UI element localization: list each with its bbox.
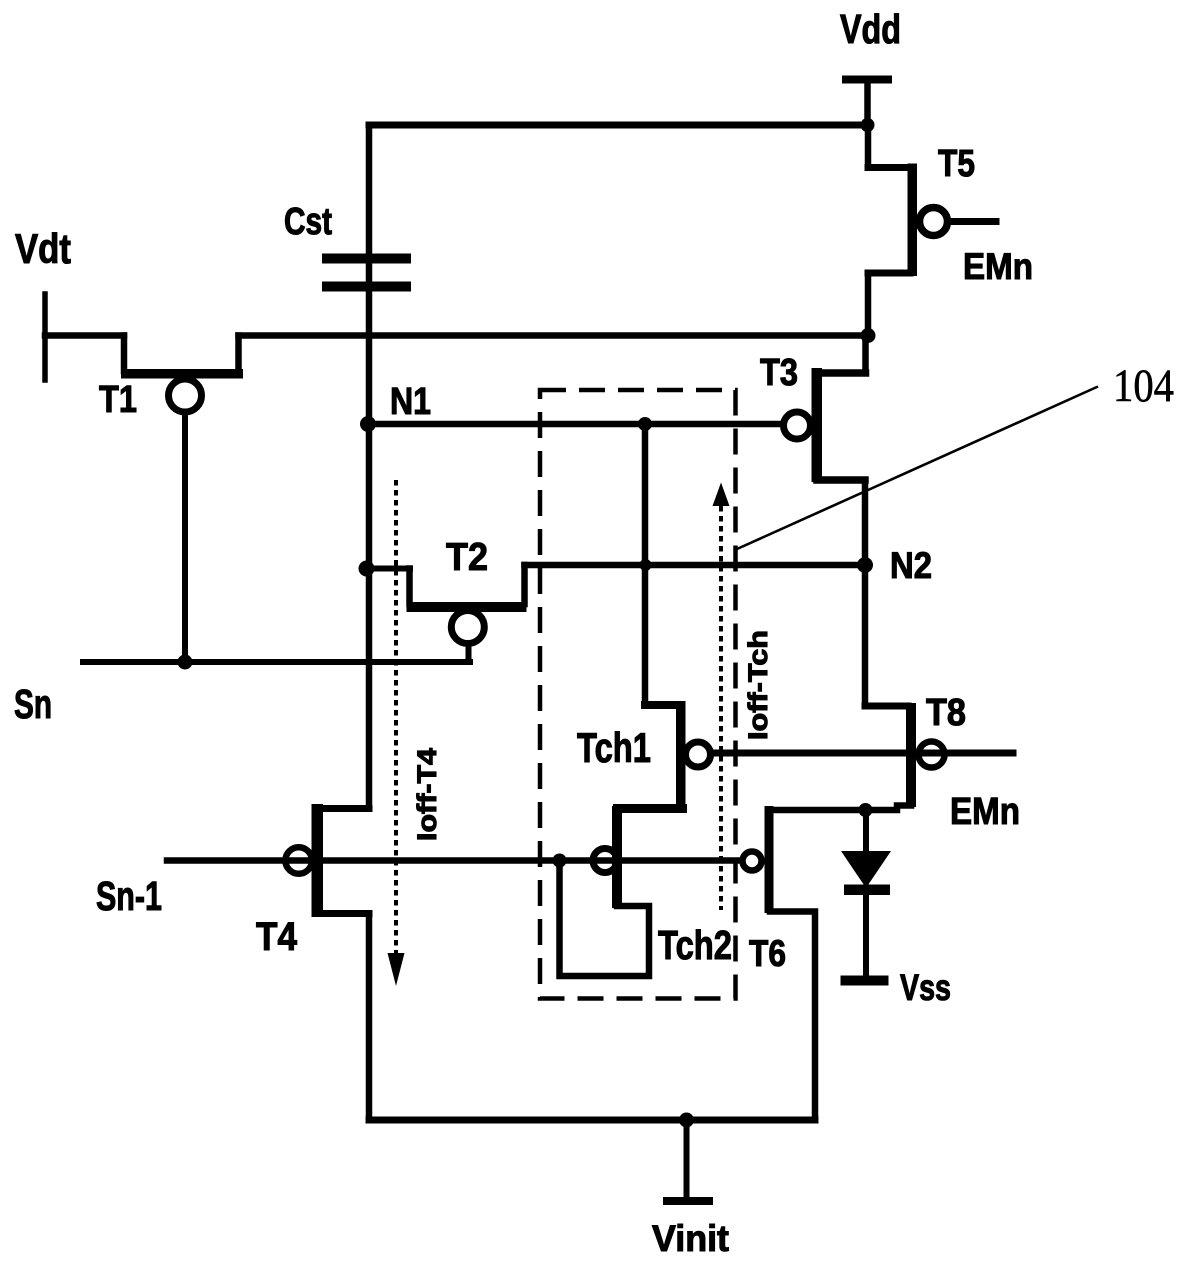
wire T5 gate bbox=[950, 218, 996, 225]
svg-text:Vss: Vss bbox=[900, 967, 951, 1008]
svg-text:Sn-1: Sn-1 bbox=[96, 873, 162, 919]
node junction dot Tch1 drain tap bbox=[638, 417, 652, 431]
wire T5 source step bbox=[868, 270, 910, 277]
node N2 junction dot bbox=[857, 557, 873, 573]
svg-text:EMn: EMn bbox=[950, 791, 1020, 833]
wire T2 drain to N2 bbox=[525, 562, 866, 569]
wire Vinit stem bbox=[684, 1120, 690, 1198]
wire N1 to T2 source bbox=[367, 566, 411, 572]
transistor T3 gate circle bbox=[784, 412, 811, 439]
svg-text:N1: N1 bbox=[390, 381, 431, 423]
wire T5 drain step bbox=[868, 164, 910, 171]
wire Vdd stem bbox=[864, 80, 871, 125]
wire bottom rail to Vinit bbox=[369, 1117, 815, 1124]
wire Sn-1 row bbox=[167, 857, 738, 864]
svg-text:N2: N2 bbox=[890, 545, 932, 586]
wire N1 row to T3 gate bbox=[367, 421, 782, 428]
power terminal Vss bar bbox=[841, 976, 889, 986]
wire diode anode stem bbox=[863, 810, 869, 852]
wire T1 left step bbox=[121, 336, 128, 372]
wire Sn row bbox=[83, 659, 470, 665]
arrow Ioff-T4 bbox=[394, 480, 398, 953]
wire Vdt terminal bar bbox=[42, 294, 48, 380]
wire T3 drain step bbox=[817, 369, 866, 377]
transistor T3 channel bbox=[812, 368, 823, 482]
transistor Tch2 channel bbox=[612, 806, 622, 908]
svg-text:Vinit: Vinit bbox=[652, 1218, 729, 1259]
svg-text:Tch2: Tch2 bbox=[658, 922, 732, 968]
svg-text:T8: T8 bbox=[926, 692, 966, 734]
wire top rail bbox=[369, 122, 867, 129]
node junction dot T5 source row bbox=[861, 328, 876, 343]
wire Vdt to T1 bbox=[45, 332, 124, 339]
dashed box 104 bbox=[540, 390, 736, 999]
transistor Tch1 source bar bbox=[613, 804, 687, 813]
wire Tch1 gate to T8 gate bbox=[711, 750, 1013, 757]
wire T2 left step bbox=[406, 569, 413, 605]
wire Tch1 drain step bbox=[645, 701, 678, 709]
wire T3 source to N2 bbox=[862, 480, 869, 565]
power terminal Vdd bar bbox=[842, 76, 892, 84]
power terminal Vinit bar bbox=[663, 1197, 713, 1205]
transistor T1 channel bbox=[121, 369, 243, 379]
wire diode cathode stem bbox=[863, 893, 869, 977]
capacitor Cst bbox=[322, 254, 411, 292]
wire N2 column to T8 bbox=[862, 565, 869, 706]
wire T4 source step bbox=[315, 910, 369, 917]
leader line to label 104 bbox=[737, 387, 1098, 550]
node junction dot Tch1 column crossing bbox=[640, 559, 652, 571]
diode OLED bbox=[841, 851, 891, 895]
svg-text:T5: T5 bbox=[938, 143, 975, 185]
node junction dot Vdd-rail bbox=[861, 118, 875, 132]
wire Tch1 drain column bbox=[642, 424, 649, 705]
svg-text:Ioff-Tch: Ioff-Tch bbox=[743, 630, 773, 740]
wire T1 gate stem bbox=[182, 410, 188, 662]
svg-text:T2: T2 bbox=[446, 536, 488, 579]
wire T6 source step bbox=[770, 912, 815, 1121]
wire Cst column through N1 bbox=[366, 125, 373, 808]
node junction dot Tch2 gate tie bbox=[553, 854, 567, 868]
node N1 junction dot bbox=[360, 416, 376, 432]
transistor T8 gate circle bbox=[919, 742, 945, 768]
svg-text:EMn: EMn bbox=[963, 246, 1033, 287]
svg-text:Cst: Cst bbox=[284, 201, 332, 243]
transistor T5 channel bbox=[908, 164, 918, 277]
svg-text:Tch1: Tch1 bbox=[577, 724, 651, 771]
transistor T2 gate circle bbox=[451, 611, 484, 644]
transistor T6 channel bbox=[765, 806, 774, 913]
node junction dot Vinit tap bbox=[679, 1113, 694, 1128]
wire T4 source column bbox=[366, 914, 373, 1121]
node junction dot T1 gate on Sn bbox=[178, 655, 193, 670]
transistor T6 gate circle bbox=[743, 852, 762, 871]
transistor T1 gate circle bbox=[169, 379, 202, 412]
wire T4 drain step bbox=[315, 805, 369, 812]
transistor Tch1 gate circle bbox=[686, 742, 711, 767]
wire T1 right step bbox=[235, 336, 242, 372]
svg-text:T6: T6 bbox=[749, 933, 786, 974]
wire T2 gate riser bbox=[466, 644, 472, 662]
transistor T4 gate circle bbox=[285, 847, 312, 874]
svg-text:Vdd: Vdd bbox=[840, 6, 901, 52]
svg-text:T1: T1 bbox=[99, 379, 137, 421]
svg-text:Vdt: Vdt bbox=[15, 225, 71, 272]
arrow Ioff-Tch bbox=[719, 506, 723, 910]
transistor Tch2 gate circle bbox=[593, 849, 617, 873]
wire T5 drain from rail bbox=[865, 125, 872, 168]
wire T6 drain to T8 source bbox=[770, 806, 911, 811]
transistor T5 gate circle bbox=[920, 208, 948, 236]
transistor T8 channel bbox=[906, 703, 916, 807]
node junction dot T2 source tap bbox=[359, 561, 375, 577]
svg-text:Ioff-T4: Ioff-T4 bbox=[412, 748, 442, 841]
wire row T1 to T5 source bbox=[239, 332, 869, 339]
node junction dot diode tap bbox=[859, 803, 873, 817]
svg-text:Sn: Sn bbox=[14, 681, 52, 727]
transistor Tch1 channel bbox=[676, 701, 686, 812]
svg-text:T4: T4 bbox=[256, 915, 298, 959]
wire T8 drain step bbox=[865, 703, 908, 710]
wire T3 drain down bbox=[862, 336, 869, 374]
wire Tch2 source loop bbox=[560, 861, 650, 977]
wire T2 right step bbox=[521, 565, 528, 604]
svg-text:104: 104 bbox=[1113, 360, 1174, 412]
wire T5 source down bbox=[865, 273, 872, 336]
transistor T4 channel bbox=[312, 804, 324, 917]
wire T3 source step bbox=[817, 476, 865, 484]
transistor T2 channel bbox=[407, 602, 527, 612]
svg-text:T3: T3 bbox=[760, 352, 798, 394]
